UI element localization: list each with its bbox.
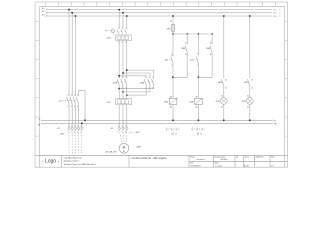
node latch join 2 (198, 76, 200, 78)
svg-text:-1M2: -1M2 (139, 82, 145, 84)
svg-text:4: 4 (77, 126, 78, 128)
wire L1 drop to breaker (118, 10, 120, 30)
svg-text:13: 13 (197, 133, 199, 135)
svg-text:Date: Date (190, 161, 193, 164)
svg-text:8: 8 (125, 126, 126, 128)
row ticks side bands (35, 21, 287, 136)
bus labels right (273, 10, 276, 18)
wire L2 drop to breaker (122, 13, 124, 30)
svg-text:-1M1: -1M1 (163, 102, 169, 104)
svg-text:2: 2 (168, 129, 169, 131)
node latch join 1 (172, 76, 174, 78)
svg-text:N: N (39, 119, 41, 121)
node merge (118, 88, 120, 90)
wire L3 drop to Q1 (74, 16, 76, 96)
svg-text:3: 3 (74, 131, 75, 133)
svg-text:14: 14 (175, 133, 177, 135)
svg-text:3: 3 (149, 77, 150, 79)
disconnect switch Q1 (67, 97, 79, 104)
svg-text:4: 4 (77, 131, 78, 133)
svg-text:3: 3 (171, 54, 172, 56)
svg-text:Drawing number: Drawing number (215, 155, 227, 158)
svg-text:-X1: -X1 (57, 128, 61, 130)
svg-text:43: 43 (225, 79, 227, 81)
latch branch 1M2 (211, 34, 213, 44)
svg-text:-1F3: -1F3 (166, 28, 171, 30)
svg-text:Sample Project at SEE Electric: Sample Project at SEE Electrical (64, 163, 96, 166)
svg-text:-1M2: -1M2 (189, 102, 195, 104)
start button 1S2 (196, 57, 198, 64)
lamp -1H2 (246, 98, 253, 105)
node split (126, 69, 128, 71)
wires overload to terminals (119, 105, 127, 127)
svg-text:1L1: 1L1 (273, 10, 276, 12)
svg-text:- Logo -: - Logo - (42, 158, 60, 164)
coil 1M1 (169, 98, 177, 104)
svg-text:6: 6 (152, 87, 153, 89)
svg-text:4: 4 (149, 87, 150, 89)
svg-text:-X1: -X1 (110, 128, 114, 130)
cable W1 conductors (119, 129, 127, 143)
svg-text:13: 13 (185, 43, 187, 45)
bus L3 (46, 15, 272, 17)
svg-text:3: 3 (71, 94, 72, 96)
svg-text:-1H2: -1H2 (241, 101, 246, 103)
rung 1 upper wire (172, 34, 174, 55)
svg-text:Project: Project (190, 155, 195, 158)
svg-text:3: 3 (196, 129, 197, 131)
wire L3 drop to breaker (126, 16, 128, 29)
svg-text:6: 6 (125, 87, 126, 89)
node (122, 12, 124, 14)
svg-text:3: 3 (171, 129, 172, 131)
lamp -1H1 (220, 98, 227, 105)
wires contactor to overload (119, 85, 127, 99)
svg-text:-1W1: -1W1 (135, 132, 140, 134)
svg-text:5: 5 (152, 77, 153, 79)
svg-text:13: 13 (251, 79, 253, 81)
cross reference table coil at x=173 (167, 127, 177, 135)
svg-text:PE: PE (274, 123, 277, 125)
svg-text:2: 2 (194, 129, 195, 131)
lamp branch -1H2 drop (249, 16, 251, 78)
terminal strip X1 left (68, 127, 83, 129)
svg-text:A1: A1 (196, 96, 198, 99)
svg-text:4: 4 (197, 65, 198, 67)
svg-text:7: 7 (77, 94, 78, 96)
svg-text:3: 3 (197, 54, 198, 56)
svg-text:-1S1: -1S1 (164, 60, 169, 62)
svg-text:5: 5 (125, 27, 126, 29)
rung 2 lower wire (197, 63, 199, 98)
svg-text:1L3: 1L3 (273, 16, 276, 18)
svg-text:-1W0: -1W0 (60, 133, 64, 135)
svg-text:1: 1 (118, 27, 119, 29)
svg-text:1M1-: 1M1- (181, 48, 186, 50)
svg-text:X2: X2 (221, 107, 223, 109)
latch branch 1M1 (186, 34, 188, 44)
svg-text:44: 44 (225, 87, 227, 89)
svg-text:1M2-: 1M2- (244, 82, 249, 84)
svg-text:1M2-: 1M2- (206, 48, 211, 50)
node L3 feed (172, 15, 174, 17)
svg-text:2: 2 (71, 131, 72, 133)
svg-text:2: 2 (145, 87, 146, 89)
svg-text:6: 6 (125, 42, 126, 44)
wire N link Q1 pole4 to N rail (79, 90, 85, 120)
wires breaker to contactor (119, 40, 127, 78)
svg-text:=M1+M1-1M1: =M1+M1-1M1 (105, 152, 117, 154)
svg-text:1L2: 1L2 (41, 11, 44, 13)
svg-text:V: V (121, 131, 122, 133)
svg-text:14: 14 (185, 54, 187, 56)
svg-text:6: 6 (74, 106, 75, 108)
node N rail (84, 119, 86, 121)
contact 1M2- lamp (248, 79, 250, 86)
svg-text:Author: Author (215, 161, 220, 164)
svg-text:14: 14 (251, 87, 253, 89)
svg-text:5: 5 (80, 126, 81, 128)
svg-text:U: U (118, 131, 119, 133)
control feed drop (172, 16, 174, 24)
svg-text:4: 4 (71, 106, 72, 108)
svg-text:4: 4 (171, 65, 172, 67)
svg-text:A2: A2 (196, 105, 198, 108)
svg-text:5: 5 (80, 131, 81, 133)
svg-text:1: 1 (166, 129, 167, 131)
node merge (126, 94, 128, 96)
latch 1 join wire (173, 52, 187, 77)
contact 1M2 43-44 (210, 45, 212, 52)
wires Q1 to terminals (69, 104, 79, 127)
node (118, 9, 120, 11)
svg-text:A2: A2 (170, 105, 172, 108)
svg-text:A_f07: A_f07 (244, 164, 250, 167)
svg-text:5: 5 (74, 94, 75, 96)
svg-text:5: 5 (201, 129, 202, 131)
svg-text:13: 13 (170, 21, 172, 23)
svg-text:N: N (274, 120, 276, 122)
node PE rail (81, 122, 83, 124)
wire PE drop (81, 123, 83, 127)
svg-text:-1S2: -1S2 (189, 60, 194, 62)
svg-text:3: 3 (122, 77, 123, 79)
svg-text:1: 1 (145, 77, 146, 79)
cross reference table coil at x=198.4 (192, 127, 202, 135)
border frame inner (39, 7, 284, 168)
svg-text:1L3: 1L3 (41, 14, 44, 16)
wire branch to contactor 1M2 (119, 76, 146, 79)
N rail (41, 119, 273, 121)
svg-text:Control scheme - M4 engine: Control scheme - M4 engine (132, 156, 168, 160)
wire L1 drop to Q1 (68, 10, 70, 97)
rung 2 upper wire (197, 34, 199, 55)
contactor 1M2 poles (144, 79, 154, 85)
svg-text:-1F1: -1F1 (106, 102, 111, 104)
motor breaker Q2 operator (111, 29, 115, 33)
node split (118, 75, 120, 77)
cable W0 conductors (69, 129, 82, 154)
svg-text:Modification: Modification (256, 155, 264, 158)
fuse 1F3 (172, 24, 175, 31)
svg-text:scheme 1: scheme 1 (197, 159, 207, 161)
svg-text:PE: PE (38, 125, 41, 127)
svg-text:05/03/2014: 05/03/2014 (191, 165, 202, 167)
wire merge from contactor 1M2 (127, 85, 146, 95)
motor 1M1 (119, 143, 129, 153)
svg-text:Sample project /: Sample project / (64, 159, 80, 162)
svg-text:5: 5 (176, 129, 177, 131)
contact 1M1 13-14 (185, 45, 187, 52)
wire fuse to rung (172, 31, 174, 34)
svg-text:3: 3 (122, 27, 123, 29)
svg-text:4: 4 (199, 129, 200, 131)
svg-text:M: M (123, 146, 126, 150)
svg-text:M4-009: M4-009 (221, 159, 229, 161)
svg-text:-Q1: -Q1 (58, 101, 62, 103)
svg-text:-1Q2: -1Q2 (106, 37, 112, 39)
column ticks top band (46, 2, 275, 7)
bus L1 (46, 9, 272, 11)
border frame outer (35, 2, 287, 167)
breaker Q2 poles (117, 29, 127, 33)
svg-text:X1: X1 (221, 96, 223, 98)
svg-text:Folio: Folio (271, 156, 274, 158)
node bus L1 (68, 9, 70, 11)
node split (122, 72, 124, 74)
node merge (122, 91, 124, 93)
svg-text:2: 2 (68, 106, 69, 108)
svg-text:-1M1: -1M1 (112, 82, 118, 84)
svg-text:Ivan Alan Maurival: Ivan Alan Maurival (64, 156, 82, 159)
svg-text:1M1-: 1M1- (218, 82, 223, 84)
svg-text:14: 14 (200, 133, 202, 135)
cable W1 label (129, 131, 131, 134)
contact 1M1- lamp (222, 79, 224, 86)
stop button 1S1 (171, 56, 174, 64)
svg-text:1: 1 (68, 94, 69, 96)
latch 2 join wire (198, 52, 212, 77)
contactor 1M1 poles (117, 79, 127, 85)
svg-text:J. Lorem: J. Lorem (215, 165, 223, 167)
terminal strip X1 motor (118, 127, 128, 129)
wire branch to contactor 1M2 (123, 73, 150, 78)
svg-text:1L1: 1L1 (41, 8, 44, 10)
svg-text:Ind.: Ind. (236, 156, 239, 158)
svg-text:-1H1: -1H1 (215, 101, 220, 103)
svg-text:X2: X2 (247, 107, 249, 109)
title block grid (35, 155, 287, 167)
svg-text:1: 1 (191, 129, 192, 131)
svg-text:2: 2 (118, 42, 119, 44)
node bus L2 (71, 12, 73, 14)
node bus L3 (75, 15, 77, 17)
PE rail (41, 122, 273, 124)
svg-text:4: 4 (173, 129, 174, 131)
bus labels left (41, 8, 44, 16)
svg-text:8: 8 (77, 106, 78, 108)
coil 1M2 (195, 98, 203, 104)
svg-text:43: 43 (210, 43, 212, 45)
svg-text:X1: X1 (247, 96, 249, 98)
svg-text:1: 1 (68, 131, 69, 133)
svg-text:3~: 3~ (123, 151, 126, 153)
svg-text:1: 1 (118, 77, 119, 79)
svg-text:4: 4 (122, 42, 123, 44)
node (126, 15, 128, 17)
svg-text:1L2: 1L2 (273, 13, 276, 15)
svg-text:-1M1: -1M1 (136, 146, 142, 148)
wire L2 drop to Q1 (71, 13, 73, 96)
svg-text:4: 4 (122, 87, 123, 89)
bus L2 (46, 12, 272, 14)
svg-text:13: 13 (171, 133, 173, 135)
svg-text:Check: Check (245, 156, 250, 158)
rung 1 lower wire (172, 63, 174, 98)
wire branch to contactor 1M2 (127, 70, 154, 78)
rung top wire (173, 33, 212, 35)
bus wire start slashes (45, 8, 48, 17)
svg-text:A1: A1 (170, 96, 172, 99)
breaker thermal box (116, 35, 132, 40)
svg-text:44: 44 (210, 54, 212, 56)
wire merge from contactor 1M2 (123, 85, 150, 92)
svg-text:6: 6 (178, 129, 179, 131)
thermal overload relay 1F1 (116, 99, 132, 105)
wire merge from contactor 1M2 (119, 85, 154, 89)
svg-text:5: 5 (125, 77, 126, 79)
lamp branch -1H1 drop (223, 16, 225, 78)
svg-text:6: 6 (204, 129, 205, 131)
